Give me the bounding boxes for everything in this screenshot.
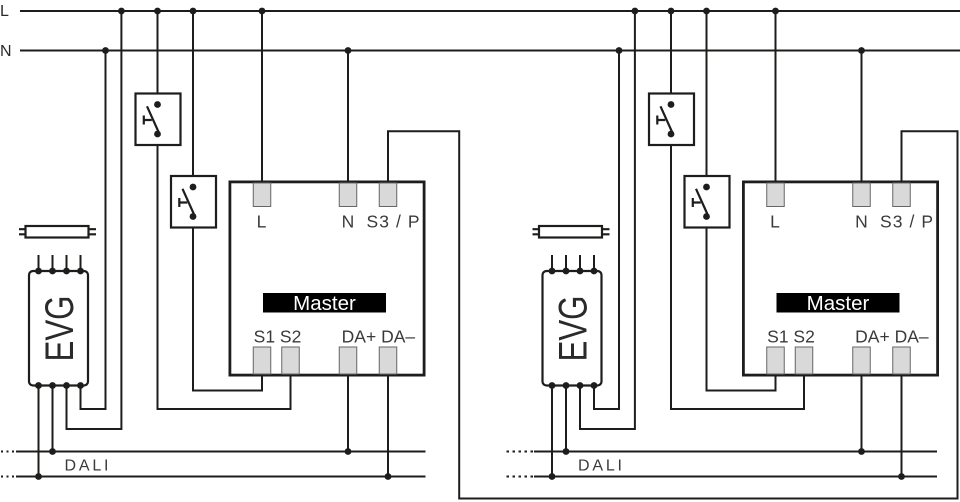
svg-text:N: N: [0, 43, 12, 60]
svg-text:L: L: [0, 3, 9, 20]
